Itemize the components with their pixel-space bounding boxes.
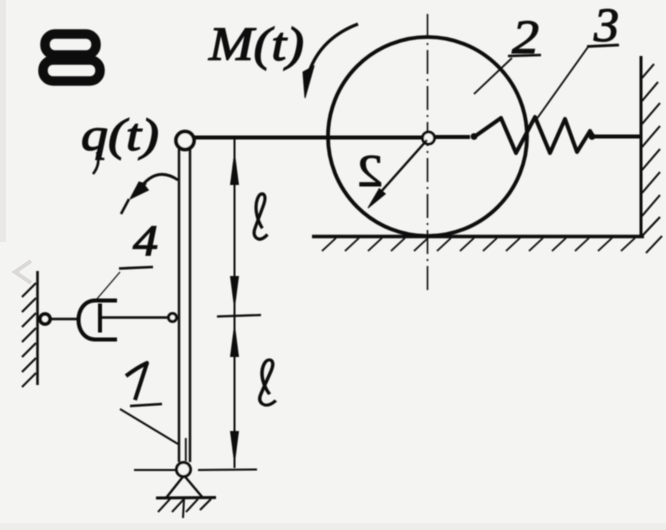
damper 4 cylinder <box>79 301 118 340</box>
damper piston rod <box>102 316 169 318</box>
link rod-to-disk <box>191 136 425 140</box>
left wall <box>36 271 39 385</box>
dimension mid tick <box>217 315 261 317</box>
svg-text:q(t): q(t) <box>81 109 159 160</box>
right wall hatching <box>642 64 662 253</box>
dimension line <box>234 139 236 468</box>
damper wall pin <box>40 314 50 324</box>
floor hatching <box>322 238 635 251</box>
q arrow <box>121 174 178 214</box>
damper piston <box>98 304 102 333</box>
left edge shading <box>0 0 6 242</box>
left wall hatching <box>22 283 36 387</box>
pivot ground hatching <box>158 499 211 518</box>
spring 3 <box>435 117 641 153</box>
bottom pin <box>177 463 191 477</box>
figure number 8 <box>43 34 100 81</box>
rod inner stub <box>185 438 187 461</box>
spring end dots <box>471 133 478 140</box>
damper wall link <box>49 318 78 321</box>
disk center pin <box>423 132 435 144</box>
pivot ground line <box>156 496 216 500</box>
length label lower l <box>260 360 276 405</box>
top pin <box>176 132 194 150</box>
radius arrow <box>368 140 427 208</box>
pivot triangle <box>166 476 203 498</box>
svg-text:2: 2 <box>357 145 383 196</box>
dimension arrowheads <box>230 150 239 466</box>
svg-text:M(t): M(t) <box>208 18 304 71</box>
right wall <box>640 56 643 237</box>
disk centerline <box>427 14 429 292</box>
rod 1 <box>178 149 180 462</box>
watermark chevron <box>15 261 31 283</box>
svg-text:4: 4 <box>133 218 158 265</box>
damper rod pin <box>169 314 177 322</box>
bottom edge shading <box>0 523 666 530</box>
floor <box>312 235 644 238</box>
baseline <box>134 469 176 471</box>
label 1 <box>126 363 147 400</box>
torque arrow <box>303 24 358 98</box>
disk 2 <box>328 37 527 236</box>
q descender tail <box>93 152 98 174</box>
length label upper l <box>254 194 267 239</box>
